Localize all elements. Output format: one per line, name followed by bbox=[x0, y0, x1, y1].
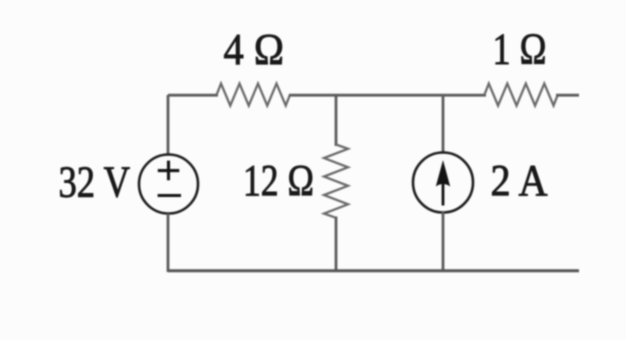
wire: top right stub after R3 to open end bbox=[556, 94, 579, 97]
resistor R1 4-ohm zigzag on top wire bbox=[217, 84, 290, 106]
wire: middle branch lower lead from R2 to bottom rail bbox=[335, 217, 338, 273]
svg-text:12 Ω: 12 Ω bbox=[243, 156, 314, 205]
wire: current-source branch lower lead to bottom rail bbox=[442, 212, 445, 272]
wire: top middle horizontal from R1 to resistor R3 lead bbox=[289, 94, 486, 97]
resistor R2 12-ohm vertical zigzag bbox=[324, 145, 348, 218]
svg-text:2 A: 2 A bbox=[491, 156, 548, 205]
plus sign inside V1 bbox=[158, 161, 180, 181]
wire: left branch upper segment from top node down to voltage source bbox=[167, 95, 170, 155]
wire: current-source branch upper lead from top rail bbox=[442, 95, 445, 153]
minus sign inside V1 bbox=[158, 194, 181, 197]
svg-text:4 Ω: 4 Ω bbox=[224, 25, 285, 74]
svg-text:32 V: 32 V bbox=[59, 158, 131, 207]
wire: left branch lower segment from voltage source down to bottom rail bbox=[167, 214, 170, 273]
resistor R3 1-ohm zigzag on top right wire bbox=[485, 84, 558, 106]
current source I1 circle bbox=[413, 153, 473, 213]
svg-text:1 Ω: 1 Ω bbox=[493, 25, 547, 74]
wire: top-left horizontal lead from node at (168,95) to resistor R1 bbox=[168, 94, 218, 97]
arrow inside I1 pointing up bbox=[442, 183, 445, 206]
voltage source V1 circle bbox=[139, 155, 198, 214]
wire: bottom rail from left branch to open right end bbox=[168, 269, 579, 272]
wire: middle branch upper lead from top rail to resistor R2 bbox=[335, 95, 338, 146]
